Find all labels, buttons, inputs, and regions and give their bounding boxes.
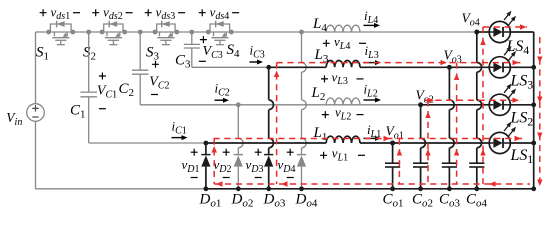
wire: row3 black segment Do3 to LS3 <box>269 66 490 68</box>
current path: red dashed up through Do3 <box>274 63 279 184</box>
label iC1 with arrow <box>172 119 188 141</box>
label v_ds3 with polarity <box>145 4 185 22</box>
label v_L3 with polarity <box>321 69 364 87</box>
wire: row2 gray segment from C2 to Vo2 <box>140 104 420 106</box>
inductor L3 <box>326 60 360 67</box>
label v_D1 with polarity <box>182 149 200 178</box>
node Vo3 <box>447 65 452 70</box>
capacitor Co3 <box>442 65 457 191</box>
label Co4 <box>466 192 488 210</box>
node Vo1 label <box>386 124 404 142</box>
label S4 <box>227 42 241 60</box>
wire: top rail segment S4 to Vo4 <box>208 31 477 33</box>
label iL1 with arrow <box>364 122 382 141</box>
label S3 <box>146 45 160 63</box>
label S2 <box>83 45 96 63</box>
current path: red dashed up from Co4 <box>480 27 485 184</box>
label v_D4 with polarity <box>278 149 296 178</box>
current path: red dashed along row4 <box>483 24 527 29</box>
LED string LS3 <box>489 46 516 78</box>
inductor L4 <box>326 25 360 32</box>
inductor L1 <box>326 136 360 143</box>
label Do1 <box>199 192 222 210</box>
switch S4 (MOSFET with body diode) <box>206 21 234 45</box>
label Do3 <box>263 192 286 210</box>
label Do4 <box>295 192 318 210</box>
label S1 <box>36 45 49 63</box>
label Co2 <box>412 192 433 210</box>
wire: row4 black segment Vo4 to LS4 <box>477 31 489 33</box>
diode Do2 (inactive) <box>234 102 243 191</box>
LED string LS1 <box>489 122 516 154</box>
inductor L2 <box>326 98 360 105</box>
wire: right return rail <box>533 32 535 189</box>
node Vo1 <box>390 141 395 146</box>
label L3 <box>314 47 329 65</box>
current path: red dashed up from Co1 <box>397 139 402 185</box>
label v_D3 with polarity <box>246 149 264 178</box>
current path: red dashed up through Do1 <box>212 139 217 185</box>
label iL3 with arrow <box>364 43 382 65</box>
capacitor C1 <box>80 30 97 143</box>
label LS1 <box>510 147 534 166</box>
label v_L1 with polarity <box>320 146 365 164</box>
current path: red dashed right-side return <box>537 37 542 186</box>
capacitor C2 <box>132 30 148 105</box>
label iC2 with arrow <box>215 81 230 103</box>
current path: red dashed up from Co2 <box>425 100 430 184</box>
wire: top rail segment S2 to S3 <box>102 31 208 33</box>
label LS4 <box>506 38 530 57</box>
label C1 <box>70 103 86 121</box>
label V_C1 with polarity <box>97 73 117 109</box>
label L2 <box>311 85 326 103</box>
node Vo2 label <box>416 88 434 106</box>
capacitor Co4 <box>469 30 484 192</box>
label C2 <box>119 81 135 99</box>
wire: input left rail from top rail to Vin <box>35 32 37 104</box>
label L4 <box>312 16 327 34</box>
label Co1 <box>383 192 404 210</box>
label Co3 <box>439 192 461 210</box>
wire: LS1 cathode to right rail <box>510 141 536 146</box>
switch S3 (MOSFET with body diode) <box>153 21 180 45</box>
label V_C3 with polarity <box>199 36 223 61</box>
label iL4 with arrow <box>364 8 381 28</box>
label Do2 <box>231 192 254 210</box>
LED string LS2 <box>489 84 516 116</box>
current path: red dashed along row2 <box>425 98 523 103</box>
label v_ds1 with polarity <box>40 4 80 22</box>
wire: LS2 cathode to right rail <box>510 102 536 107</box>
label LS3 <box>510 73 534 92</box>
label iL2 with arrow <box>364 82 382 103</box>
label C3 <box>175 53 191 71</box>
label v_ds2 with polarity <box>92 4 132 22</box>
diode Do3 <box>264 65 273 191</box>
wire: LS4 cathode to right rail <box>510 31 534 33</box>
switch S1 (MOSFET with body diode) <box>46 21 75 45</box>
switch S2 (MOSFET with body diode) <box>100 21 128 45</box>
current path: red dashed along row3 <box>277 60 522 65</box>
label LS2 <box>510 110 534 129</box>
label L1 <box>313 125 328 143</box>
label Vin <box>6 110 22 128</box>
wire: row1 black segment Do1 to LS1 <box>206 142 489 144</box>
node Vo4 label <box>462 11 480 29</box>
label v_L4 with polarity <box>323 34 366 52</box>
node Vo4 <box>474 30 479 35</box>
label v_D2 with polarity <box>214 149 232 178</box>
wire: bottom rail gray segment from Vin to Do1 <box>36 188 206 190</box>
voltage source Vin <box>27 104 45 122</box>
wire: bottom rail black segment <box>206 186 536 191</box>
label v_L2 with polarity <box>322 105 364 123</box>
wire: row3 gray segment from C3 to Do3 <box>192 66 269 68</box>
current path: red dashed bottom return <box>214 181 530 186</box>
current path: red dashed up from Co3 <box>454 63 459 184</box>
label V_C2 with polarity <box>149 61 169 95</box>
wire: top rail segment S1 area <box>36 31 103 33</box>
label v_ds4 with polarity <box>199 4 239 22</box>
node Vo3 label <box>444 48 462 66</box>
wire: LS3 cathode to right rail <box>510 65 536 70</box>
diode Do4 (inactive) <box>297 30 306 192</box>
capacitor C3 <box>184 30 200 68</box>
wire: row2 black segment Vo2 to LS2 <box>421 104 490 106</box>
current path: red dashed along row1 <box>214 136 523 141</box>
wire: row1 gray segment from C1 to Do1 <box>89 142 206 144</box>
LED string LS4 <box>489 11 516 43</box>
capacitor Co2 <box>413 102 428 191</box>
wire: input left rail from Vin to bottom rail <box>35 121 37 189</box>
diode Do1 <box>201 141 210 192</box>
node Vo2 <box>418 102 423 107</box>
label iC3 with arrow <box>250 43 265 65</box>
capacitor Co1 <box>385 141 400 192</box>
